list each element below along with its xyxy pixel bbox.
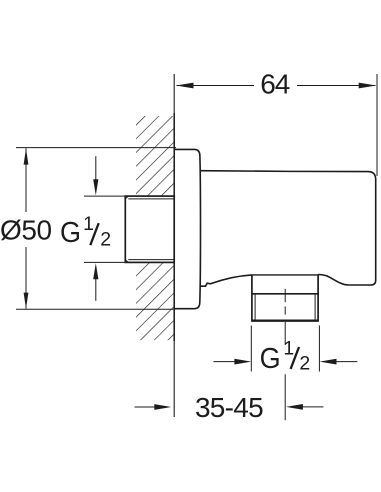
- svg-text:35-45: 35-45: [195, 392, 263, 423]
- dimension 35-45 arrows: [135, 406, 156, 408]
- outlet thread minor lines: [254, 294, 256, 320]
- outlet thread shoulder: [251, 293, 319, 295]
- dimension D50 extension lines: [16, 147, 176, 149]
- wall-side thread outer rect: [125, 196, 174, 262]
- svg-text:2: 2: [100, 229, 111, 251]
- wall thread G1/2 label: [60, 213, 111, 250]
- svg-text:G: G: [260, 343, 281, 375]
- svg-text:G: G: [60, 217, 81, 249]
- flange (escutcheon) outline: [174, 149, 200, 308]
- svg-text:2: 2: [299, 352, 310, 374]
- wall-side thread minor lines: [128, 198, 174, 200]
- svg-text:1: 1: [283, 337, 294, 359]
- dimension D50 line: [25, 148, 27, 308]
- centerline of outlet: [284, 289, 286, 345]
- outlet G1/2 extension lines: [250, 326, 252, 372]
- wall-side thread chamfers: [125, 196, 128, 199]
- dimension 64 arrowheads: [176, 83, 194, 89]
- body outline: [201, 171, 376, 285]
- wall hatch lower block: [136, 263, 174, 341]
- outlet G1/2 label: [260, 337, 311, 375]
- wall face line: [173, 74, 175, 417]
- wall thread G1/2 arrows: [95, 156, 97, 180]
- outlet G1/2 arrows: [214, 361, 236, 363]
- svg-text:1: 1: [83, 213, 94, 235]
- svg-text:64: 64: [260, 68, 290, 99]
- dimension 64 line: [177, 85, 376, 87]
- dimension 64 extension line right: [376, 74, 378, 176]
- body underside left curve: [201, 275, 252, 286]
- wall hatch upper block: [136, 116, 174, 196]
- wall thread G1/2 extension lines: [84, 195, 125, 197]
- dimension D50 arrowheads: [24, 148, 29, 164]
- outlet thread end face: [251, 320, 319, 322]
- dimension 35-45 extension line right: [284, 374, 286, 420]
- outlet union collar: [252, 274, 318, 276]
- svg-text:Ø50: Ø50: [0, 215, 52, 246]
